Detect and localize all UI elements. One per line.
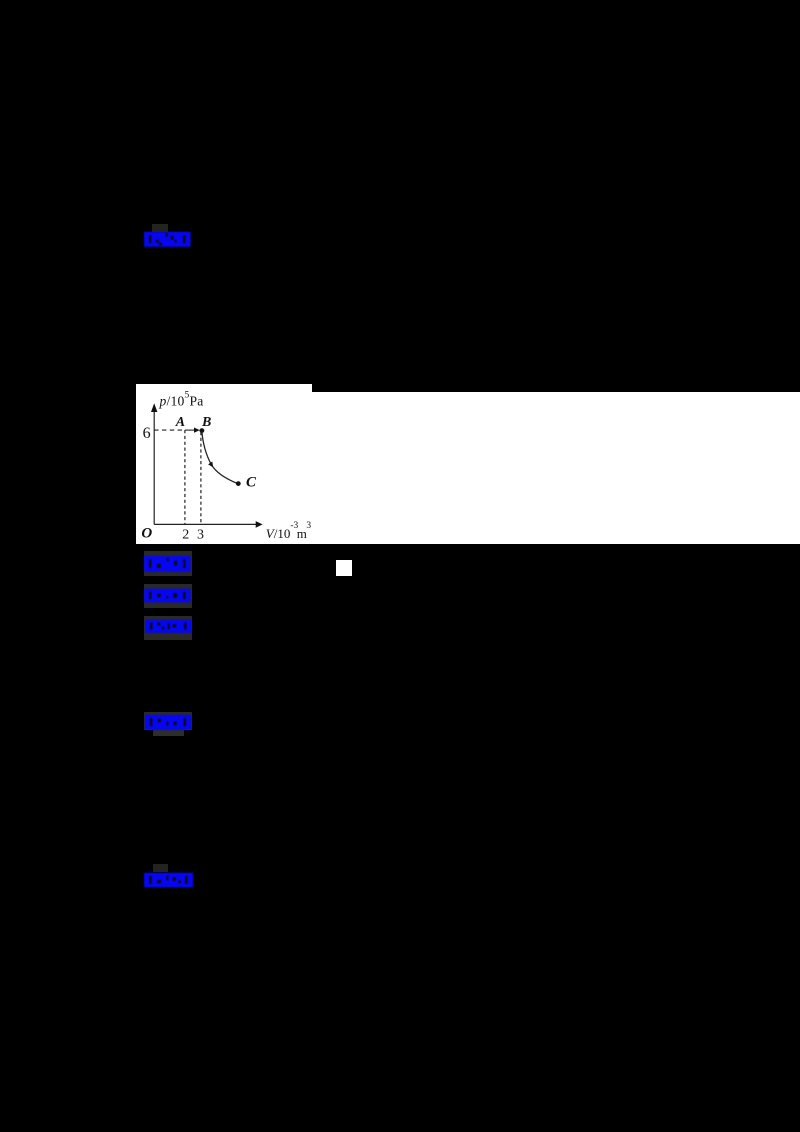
formula image square [336,560,352,576]
analysis link 4 [145,619,192,634]
svg-text:C: C [246,474,257,490]
question number tab 1 [152,224,168,232]
y-axis [153,408,155,524]
curve arrowhead [208,462,213,468]
answer link 6 [144,872,193,888]
p-V diagram [136,384,312,544]
highlight box 5 lower extension [153,730,185,736]
arrow A to B [185,429,196,431]
figure white box [136,384,312,544]
svg-text:A: A [175,415,185,430]
highlight box 2 [144,551,193,576]
svg-text:B: B [201,415,211,430]
x-axis [154,523,256,525]
y-axis arrowhead [151,403,157,412]
svg-text:2: 2 [182,528,189,543]
curve B to C [202,432,238,484]
highlight box 5 [144,712,192,730]
question number tab 6 [153,864,169,872]
svg-text:3: 3 [197,528,204,543]
point link 5 [145,714,191,731]
answer link 2 [144,555,191,573]
highlight box 3 [144,584,192,608]
detail link 3 [144,588,191,603]
dashed level-6 line [154,429,185,431]
x-axis arrowhead [256,521,263,528]
svg-text:O: O [141,526,152,542]
dashed vertical at V=2 [184,430,186,524]
answer link 1 [144,231,191,248]
highlight box 4 [144,616,192,640]
figure line white band [312,392,800,544]
svg-text:6: 6 [143,425,151,442]
point C dot [236,481,241,486]
svg-text:V/10-3m3: V/10-3m3 [266,521,312,541]
dashed vertical at V=3 [200,432,202,524]
point B dot [200,428,205,433]
svg-text:p/105Pa: p/105Pa [159,391,204,409]
